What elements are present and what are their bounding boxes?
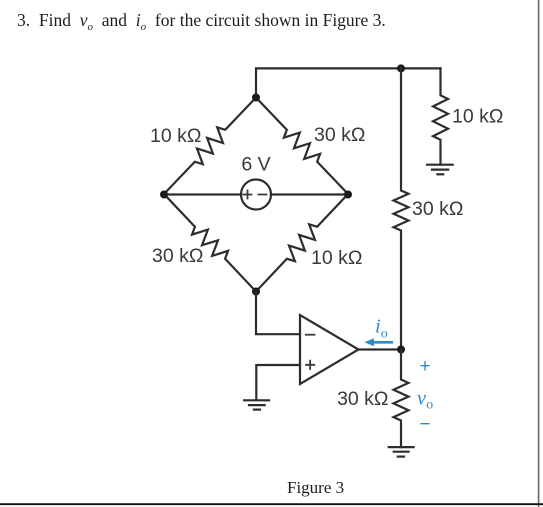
label v_o [417,388,433,413]
svg-text:10 kΩ: 10 kΩ [150,125,201,147]
node D (bridge bottom) [252,288,260,296]
svg-text:−: − [420,414,431,435]
svg-text:30 kΩ: 30 kΩ [412,198,463,220]
node C (bridge right) [344,191,352,199]
border right [538,0,540,507]
op-amp minus pin symbol [306,334,315,336]
voltage source V1 6 V [241,180,271,210]
wire bridge middle left (left node to source) [164,193,241,195]
node A (bridge top) [252,94,260,102]
resistor R2 30 kOhm (bridge top-right) [256,98,348,195]
svg-text:+: + [420,356,431,377]
resistor R3 30 kOhm (bridge bottom-left) [164,194,256,292]
wire op-amp noninverting input to ground [256,365,300,400]
node B (bridge left) [160,191,168,199]
V1 polarity marks plus minus [244,191,267,199]
current arrow i_o [364,338,391,346]
resistor R4 10 kOhm (bridge bottom-right) [256,194,348,292]
svg-text:10 kΩ: 10 kΩ [311,247,362,269]
wire bridge middle right (source to right node) [271,193,348,195]
border bottom [0,503,543,505]
ground G1 (right branch) [427,165,453,175]
node F (output junction) [397,346,405,354]
wire top horizontal from bridge top node to right branch [256,68,441,97]
svg-text:30 kΩ: 30 kΩ [337,388,388,410]
current label i_o [375,316,388,342]
ground G3 (load) [389,447,414,457]
node E (top rail junction) [397,64,405,72]
svg-text:o: o [381,327,388,342]
wire from node D down to op-amp inverting input [256,292,300,335]
svg-text:o: o [426,398,433,413]
ground G2 (op-amp + input) [244,400,269,409]
resistor R5 10 kOhm (right branch to ground) [433,68,448,164]
resistor R1 10 kOhm (bridge top-left) [164,98,256,195]
resistor R6 30 kOhm (middle right branch) [394,68,409,349]
wire op-amp output to node F [359,348,402,350]
op-amp plus pin symbol [306,361,314,369]
svg-text:30 kΩ: 30 kΩ [152,245,203,267]
svg-text:10 kΩ: 10 kΩ [452,106,503,128]
op-amp U1 [300,315,359,384]
svg-text:30 kΩ: 30 kΩ [314,124,365,146]
resistor R7 30 kOhm (load to ground) [394,350,409,448]
svg-text:6 V: 6 V [241,154,270,176]
